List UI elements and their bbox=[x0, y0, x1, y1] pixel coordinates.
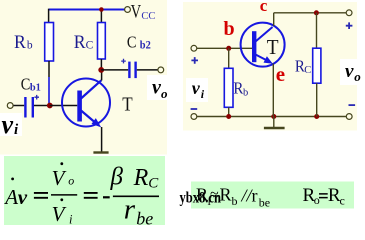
label + (input, right circuit) bbox=[191, 57, 198, 64]
label Rb bbox=[14, 32, 33, 53]
formula Ro = Rc bbox=[303, 185, 345, 207]
svg-text:CC: CC bbox=[141, 11, 155, 22]
svg-text:o: o bbox=[314, 193, 320, 207]
label vo (right) bbox=[340, 59, 364, 85]
svg-text:C: C bbox=[86, 40, 94, 52]
terminal: bottom-right circle bbox=[346, 114, 352, 120]
svg-text:C: C bbox=[304, 65, 311, 76]
label RC bbox=[74, 32, 94, 53]
svg-text:r: r bbox=[124, 194, 136, 226]
svg-text:o: o bbox=[161, 86, 168, 101]
svg-text:R: R bbox=[74, 32, 86, 53]
svg-text:ybx8.cn: ybx8.cn bbox=[180, 190, 222, 207]
svg-text:T: T bbox=[267, 35, 279, 59]
left formula band bbox=[4, 156, 165, 225]
wire: lead from top rail junction down to RC top bbox=[100, 10, 102, 23]
wire: bottom rail bbox=[197, 116, 346, 118]
svg-text:V: V bbox=[52, 202, 67, 226]
label vi (left) bbox=[0, 110, 22, 139]
node: base junction dot bbox=[47, 103, 53, 109]
terminal: vo output circle bbox=[158, 67, 164, 73]
svg-text:i: i bbox=[69, 213, 73, 227]
svg-text:C: C bbox=[21, 75, 31, 94]
svg-text:be: be bbox=[259, 196, 270, 210]
capacitor Cb2 output coupling bbox=[101, 62, 158, 79]
svg-text:b: b bbox=[243, 88, 248, 99]
wire: base wire to transistor bbox=[50, 105, 78, 107]
wire: lead from top rail corner down to Rb top bbox=[48, 9, 50, 23]
wire: Rb bottom lead (right) bbox=[228, 107, 230, 116]
left panel background bbox=[0, 0, 167, 155]
svg-text:o: o bbox=[354, 69, 361, 84]
svg-text:A: A bbox=[3, 185, 18, 209]
svg-text:o: o bbox=[68, 174, 74, 188]
label Cb2 bbox=[127, 32, 151, 51]
resistor Rb (left circuit) bbox=[45, 23, 54, 62]
svg-text:β: β bbox=[110, 164, 124, 191]
node: emitter bottom junction dot bbox=[271, 114, 276, 119]
svg-text:V: V bbox=[131, 2, 142, 22]
label - (output, right circuit) bbox=[349, 104, 356, 106]
terminal: vi input circle bbox=[7, 103, 13, 109]
wire: input top wire to base bbox=[197, 47, 252, 49]
svg-text:v: v bbox=[345, 61, 354, 82]
node: Rb bottom junction dot bbox=[226, 114, 231, 119]
resistor RC (right circuit) bbox=[313, 48, 321, 83]
svg-text:b1: b1 bbox=[30, 82, 41, 94]
terminal: output + circle bbox=[346, 10, 352, 16]
svg-text:R: R bbox=[220, 185, 232, 205]
label + (output, right circuit) bbox=[346, 22, 353, 29]
wire: RC bottom lead bbox=[100, 59, 102, 70]
node: base junction dot (right) bbox=[226, 46, 231, 51]
svg-text:T: T bbox=[122, 93, 132, 115]
right formula band bbox=[191, 182, 354, 209]
wire: Rb bottom lead (blue part) down to base node bbox=[48, 77, 50, 104]
terminal: VCC open circle bbox=[125, 7, 131, 13]
ground (right circuit) bbox=[264, 117, 285, 129]
label - (input, right circuit) bbox=[191, 108, 198, 110]
wire: Rb top lead (right) bbox=[228, 48, 230, 68]
wire: collector lead up (right) bbox=[273, 13, 275, 26]
label vo (left) bbox=[147, 75, 172, 101]
resistor RC (left circuit) bbox=[98, 23, 106, 60]
wire: emitter lead down to ground bbox=[101, 127, 103, 152]
svg-text:b2: b2 bbox=[140, 40, 151, 52]
wire: emitter lead down (right) bbox=[272, 64, 274, 117]
svg-text:C: C bbox=[127, 32, 137, 51]
node: collector junction dot (right) bbox=[314, 10, 319, 15]
transistor T (right circuit) bbox=[241, 23, 285, 67]
svg-text:be: be bbox=[136, 208, 153, 228]
node: junction dot at top rail / RC bbox=[99, 7, 104, 12]
wire: top rail (right) bbox=[274, 12, 347, 14]
svg-text:C: C bbox=[148, 176, 159, 192]
svg-text:c: c bbox=[260, 0, 268, 15]
capacitor Cb1 input coupling bbox=[13, 97, 48, 118]
label VCC bbox=[131, 2, 156, 22]
label + polarity of Cb1 bbox=[34, 95, 39, 100]
formula Ri = Rb // rbe bbox=[196, 185, 270, 210]
resistor Rb (right circuit) bbox=[224, 68, 233, 107]
wire: top rail (blue) from above Rb to VCC terminal bbox=[49, 9, 125, 11]
wire: RC top lead (right) bbox=[316, 13, 318, 48]
svg-text:b: b bbox=[27, 39, 33, 51]
wire: collector lead up to RC node bbox=[101, 70, 103, 81]
svg-text:r: r bbox=[252, 186, 258, 206]
terminal: bottom-left circle bbox=[191, 114, 197, 120]
label + polarity of Cb2 bbox=[121, 59, 126, 64]
node: collector junction dot bbox=[98, 67, 104, 73]
svg-text:v: v bbox=[2, 110, 14, 139]
svg-text:b: b bbox=[224, 18, 235, 40]
label Cb1 bbox=[21, 75, 41, 94]
svg-text:v: v bbox=[18, 185, 28, 209]
right panel background bbox=[183, 2, 357, 131]
svg-text:e: e bbox=[276, 62, 285, 86]
svg-text:c: c bbox=[340, 193, 345, 207]
transistor T (left circuit) bbox=[62, 79, 110, 128]
label RC (right) bbox=[295, 57, 311, 77]
terminal: input + circle bbox=[191, 45, 197, 51]
formula Av = Vo/Vi = -beta RC / rbe bbox=[3, 162, 159, 228]
wire: RC bottom lead (right) bbox=[316, 83, 318, 116]
svg-text:V: V bbox=[52, 166, 67, 190]
svg-text:R: R bbox=[133, 165, 149, 191]
label vi (right) bbox=[186, 78, 208, 102]
svg-text:b: b bbox=[232, 194, 238, 208]
svg-text:R: R bbox=[233, 78, 243, 97]
label Rb (right) bbox=[233, 78, 248, 98]
ground (left circuit) bbox=[93, 151, 108, 153]
svg-text:v: v bbox=[192, 78, 201, 98]
svg-text:R: R bbox=[14, 32, 26, 53]
wire: Rb bottom lead (black part) bbox=[48, 61, 50, 77]
node: RC bottom junction dot bbox=[314, 114, 319, 119]
